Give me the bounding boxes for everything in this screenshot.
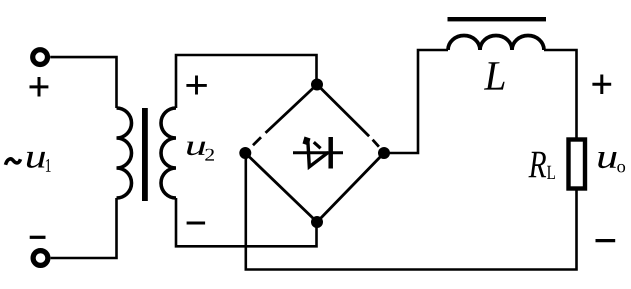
node top: [311, 79, 323, 91]
plus (output): [592, 75, 611, 95]
diode anode blob: [303, 137, 311, 146]
wire secondary left bottom: [176, 198, 317, 246]
wire inductor to resistor top: [544, 50, 577, 138]
inductor L winding: [448, 36, 544, 51]
transformer secondary winding: [161, 108, 176, 198]
label RL subscript L: [547, 166, 555, 179]
resistor RL: [569, 140, 586, 189]
wire right node to inductor: [384, 50, 448, 153]
diode lead line: [293, 151, 343, 154]
label RL: [529, 152, 547, 178]
node bottom: [311, 216, 323, 228]
node right: [378, 147, 390, 159]
wire left node down to bottom rail: [246, 153, 577, 270]
label u1: [27, 152, 45, 168]
wire: [50, 57, 116, 108]
input terminal bottom: [33, 251, 48, 266]
label uo subscript o: [617, 164, 625, 173]
label L: [484, 62, 505, 89]
diode triangle top edge (broken): [314, 142, 321, 148]
diode cathode bar: [328, 137, 333, 169]
minus (secondary): [187, 222, 206, 225]
bridge edge left-bottom: [245, 153, 317, 222]
label uo: [598, 152, 616, 168]
transformer core: [142, 108, 148, 201]
label u2 subscript 2: [205, 149, 214, 161]
wire: [51, 198, 117, 258]
node left: [239, 147, 251, 159]
bridge edge top-right (dash near right node): [317, 85, 379, 147]
label u1 subscript 1: [46, 159, 51, 172]
label u2: [187, 142, 205, 156]
minus (output): [596, 239, 616, 242]
transformer primary winding: [117, 108, 132, 198]
label ~u1 tilde: [6, 159, 21, 165]
input terminal top: [33, 50, 48, 65]
minus (input): [30, 236, 46, 239]
diode D (triangle): [308, 140, 329, 167]
inductor core bar: [448, 17, 547, 21]
plus (secondary): [186, 76, 206, 95]
wire secondary left top: [176, 55, 317, 108]
bridge edge bottom-right: [317, 153, 384, 222]
plus (input): [30, 77, 49, 97]
bridge edge left-top (dashed near left node): [253, 85, 317, 146]
